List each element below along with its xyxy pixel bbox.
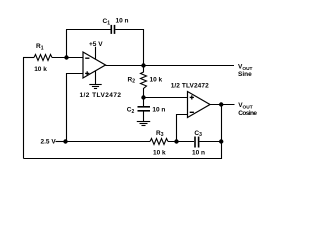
node B junction dot <box>141 95 145 99</box>
wire U2 output to Vout Cosine <box>210 104 235 106</box>
U1 non-inverting input plus sign <box>85 71 89 75</box>
wire left vertical from R1 down to bottom loop <box>23 58 25 159</box>
svg-text:10 k: 10 k <box>34 66 47 73</box>
wire U1 non-inverting input to 2.5V rail <box>67 74 84 142</box>
wire U2 output down to C3 right node <box>221 105 223 142</box>
U2 inverting input minus sign <box>190 111 194 113</box>
node U1-output/C1/R2 junction dot <box>141 63 145 67</box>
op-amp U1 triangle 1/2 TLV2472 <box>83 52 106 78</box>
wire right vertical down and bottom loop back to R1 <box>24 142 222 159</box>
svg-text:10 k: 10 k <box>150 76 163 83</box>
wire R3 to node <box>168 141 194 143</box>
wire R1 row left segment <box>23 57 34 59</box>
wire C1 top row right and down to U1 output node <box>115 30 143 66</box>
wire 2.5V rail to R3 <box>66 141 151 143</box>
ground below U1 <box>89 71 101 89</box>
wire U1 output row to Vout Sine <box>106 65 235 67</box>
svg-text:R1: R1 <box>36 43 44 51</box>
wire node B to U2 non-inverting input <box>144 97 188 99</box>
wire C1 top row left <box>66 29 111 31</box>
svg-text:10 n: 10 n <box>192 150 205 157</box>
resistor R3 <box>150 139 168 145</box>
svg-text:1/2 TLV2472: 1/2 TLV2472 <box>171 82 209 89</box>
svg-text:Cosine: Cosine <box>238 110 257 117</box>
node A junction dot <box>64 55 68 59</box>
wire 2.5V label dash to node <box>56 141 66 143</box>
node C3 right junction dot <box>219 139 223 143</box>
svg-text:10 n: 10 n <box>116 18 129 25</box>
svg-text:R3: R3 <box>156 130 164 138</box>
U2 non-inverting input plus sign <box>190 95 194 99</box>
svg-text:2.5 V: 2.5 V <box>41 138 57 145</box>
resistor R1 <box>34 55 52 61</box>
wire R1 to node A and op-amp U1 inverting input <box>52 57 83 59</box>
svg-text:1/2 TLV2472: 1/2 TLV2472 <box>80 92 122 99</box>
svg-text:R2: R2 <box>128 76 136 84</box>
wire C3 to right node <box>199 141 221 143</box>
op-amp U2 triangle 1/2 TLV2472 <box>188 92 211 118</box>
+5V supply stub <box>95 47 97 60</box>
node R3/C3 junction dot <box>174 139 178 143</box>
svg-text:VOUT: VOUT <box>238 102 253 110</box>
capacitor C2 (vertical) <box>138 98 151 122</box>
svg-text:10 k: 10 k <box>153 150 166 157</box>
svg-text:C1: C1 <box>103 18 111 26</box>
capacitor C3 <box>195 137 199 148</box>
svg-text:10 n: 10 n <box>152 106 165 113</box>
svg-text:Sine: Sine <box>238 71 252 78</box>
wire U2 inverting input feedback to R3/C3 node <box>177 115 188 142</box>
resistor R2 (vertical) <box>141 66 147 98</box>
wire node A up to C1 <box>66 30 68 59</box>
capacitor C1 <box>111 25 114 34</box>
node U2 output junction dot <box>219 102 223 106</box>
svg-text:+5 V: +5 V <box>89 41 103 48</box>
U1 inverting input minus sign <box>85 57 89 59</box>
svg-text:C2: C2 <box>127 106 135 114</box>
node 2.5V junction dot <box>63 139 67 143</box>
ground below C2 <box>137 122 150 126</box>
